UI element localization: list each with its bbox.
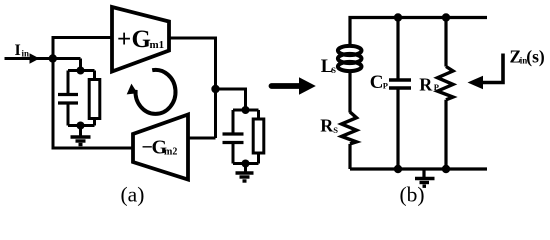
junction dot RC2 top	[242, 106, 250, 114]
Cp label	[370, 72, 388, 93]
node dot Cp bottom	[394, 165, 402, 173]
capacitor Cp bottom stem	[396, 90, 399, 170]
node dot Rp bottom	[442, 165, 450, 173]
label (b)	[400, 183, 425, 207]
svg-text:(a): (a)	[121, 183, 145, 207]
Rs label	[320, 116, 338, 136]
svg-text:P: P	[383, 81, 388, 91]
node 1 (input node)	[49, 54, 57, 62]
Rp label	[419, 74, 439, 94]
wire: (b) bottom rail	[350, 167, 487, 170]
svg-text:G: G	[132, 26, 151, 53]
wire: RC1 bottom rail	[68, 124, 95, 127]
wire: node 1 up to +Gm1 input	[53, 38, 112, 59]
resistor R2 top stem	[257, 110, 260, 119]
junction dot RC1 top	[77, 67, 85, 75]
capacitor C2 bottom stem	[232, 144, 235, 164]
Iin label	[15, 42, 30, 59]
resistor R2 body	[253, 119, 264, 153]
resistor R1 top stem	[93, 71, 96, 80]
wire: RC2 bottom rail	[233, 162, 259, 165]
svg-text:I: I	[15, 42, 21, 59]
capacitor Cp plates	[389, 80, 411, 88]
resistor R1 bottom stem	[93, 119, 96, 126]
resistor Rs zigzag	[342, 112, 357, 144]
ground Gb	[422, 169, 425, 177]
svg-text:m1: m1	[150, 39, 165, 51]
svg-text:m2: m2	[164, 147, 177, 158]
svg-text:+: +	[117, 26, 131, 53]
svg-text:S: S	[333, 125, 338, 135]
svg-text:(b): (b)	[400, 183, 425, 207]
Zin(s) input impedance arrow	[483, 54, 503, 83]
svg-text:R: R	[320, 116, 334, 136]
wire: tap from node 2 to RC2	[216, 89, 246, 110]
ground G1	[79, 126, 82, 137]
resistor R1 body	[89, 80, 100, 119]
resistor R2 bottom stem	[257, 153, 260, 164]
svg-text:S: S	[331, 65, 336, 75]
resistor Rp zigzag	[438, 67, 454, 100]
svg-text:R: R	[419, 74, 433, 94]
Zin(s) label	[510, 47, 545, 67]
capacitor C2 plates	[223, 134, 244, 143]
node 2 (on right vertical)	[211, 85, 219, 93]
circulation arrow (loop symbol)	[136, 70, 176, 114]
junction dot RC2 bottom	[242, 160, 250, 168]
capacitor C1 top stem	[67, 71, 70, 94]
junction dot RC1 bottom	[77, 122, 85, 130]
node dot Rp top	[442, 13, 450, 21]
wire: input lead	[5, 57, 81, 60]
Ls label	[321, 56, 336, 77]
transform arrow	[272, 83, 301, 89]
wire: Rs to bottom rail	[348, 144, 351, 169]
wire: RC1 top rail	[68, 69, 95, 72]
capacitor C1 bottom stem	[67, 105, 70, 126]
resistor Rp top stem	[444, 18, 447, 67]
input current arrowhead	[30, 53, 40, 63]
op-amp -Gm2	[133, 115, 188, 180]
svg-text:P: P	[434, 82, 439, 92]
label (a)	[121, 183, 145, 207]
inductor Ls coil	[338, 46, 362, 55]
wire: RC2 top rail	[233, 109, 259, 112]
wire: +Gm1 output down right side	[169, 38, 216, 138]
op-amp +Gm1	[112, 7, 169, 72]
wire: between Ls and Rs	[348, 70, 351, 113]
resistor Rp bottom stem	[444, 100, 447, 169]
wire: -Gm2 input	[188, 137, 216, 140]
capacitor Cp top stem	[396, 18, 399, 79]
node dot Cp top	[394, 13, 402, 21]
capacitor C1 plates	[58, 95, 78, 104]
wire: -Gm2 output feedback to node 1	[53, 59, 133, 149]
svg-text:C: C	[370, 72, 384, 93]
svg-text:(s): (s)	[526, 47, 545, 67]
capacitor C2 top stem	[232, 110, 235, 133]
wire: (b) top rail	[350, 18, 487, 45]
wire: tap from input wire to RC1	[79, 59, 82, 71]
ground G2	[244, 164, 247, 173]
